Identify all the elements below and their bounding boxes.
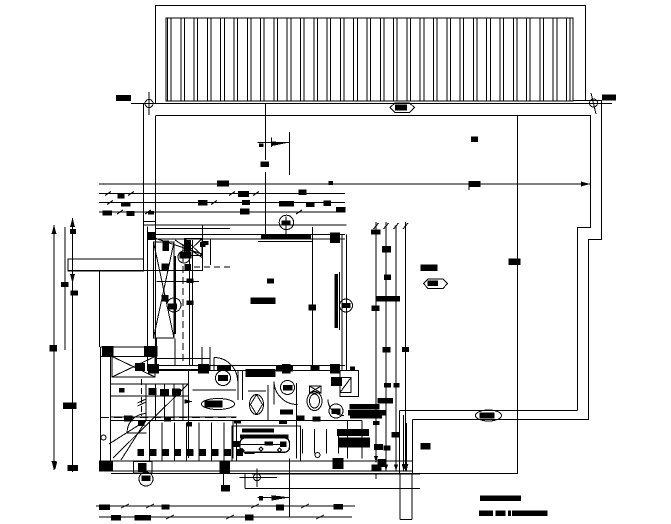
left dim tick blob top — [70, 229, 76, 234]
living west wall outer — [147, 227, 149, 372]
dim blobs line3 b — [242, 200, 250, 205]
left dim v1 bottom arrow — [52, 461, 57, 470]
kitchen counter outline — [340, 371, 359, 397]
toilet bowl oval — [307, 392, 322, 411]
top wall window band — [261, 235, 311, 239]
section marker top: flag triangle — [272, 142, 290, 147]
roof label blob right — [602, 95, 616, 101]
bath dim blob right b — [350, 367, 355, 372]
right wall window band — [335, 274, 339, 328]
stairs dashed line — [101, 417, 236, 419]
dim blobs line3 a — [198, 200, 208, 206]
bath door circle blob — [283, 385, 293, 391]
west wall inner lower block — [110, 357, 112, 463]
top dim line 3 — [99, 202, 345, 204]
X panel tick blob 2 — [162, 295, 169, 302]
lower-right label ellipse — [476, 410, 502, 421]
lower-right rect right edge — [517, 420, 519, 474]
roof datum tick left — [148, 92, 150, 115]
vdim bottom arrows — [374, 456, 378, 463]
stair corridor line down — [188, 371, 190, 458]
big text kitchen 1b — [350, 404, 380, 410]
store X diagonal 1 — [112, 357, 155, 378]
section marker top: tick — [271, 138, 273, 148]
upper flight tread 3 — [164, 384, 166, 421]
upper-left floor line — [68, 270, 203, 272]
bottom dim2 blob c — [245, 515, 254, 521]
left dim arrow mid — [70, 274, 75, 283]
toilet tank rect — [310, 386, 322, 393]
closet dark bar 1 — [163, 241, 170, 252]
panel circle2 blob — [168, 304, 177, 310]
top wall window sill lines — [258, 241, 313, 243]
dim blobs line2 a — [118, 194, 125, 199]
big text kitchen 1a — [378, 398, 394, 404]
wall tick top right — [471, 137, 478, 143]
roof eave upper line right — [573, 100, 602, 102]
grid centreline x=265 upper — [265, 104, 267, 160]
bathtub heavy bar lower — [240, 434, 289, 438]
small drain circle left — [101, 435, 106, 440]
left dim blob c — [50, 345, 58, 352]
door label circle blob — [218, 375, 228, 381]
column SW lower block — [99, 461, 113, 472]
bath row mid wall y420 — [237, 420, 363, 422]
stair right dim arrow — [185, 399, 194, 404]
vdim blob a — [371, 230, 381, 235]
closet dash lower — [194, 266, 230, 268]
upper-left room inner wall — [210, 239, 212, 265]
door label circle bottom living — [216, 371, 231, 386]
vdim x386 — [385, 222, 387, 471]
panel label circle 1 — [178, 251, 190, 263]
upper-left room top wall line1 — [144, 224, 347, 226]
closet X-brace rect — [185, 239, 203, 256]
bottom column stem — [222, 468, 224, 486]
door arc bottom living — [214, 358, 238, 382]
toilet bowl inner ellipse — [310, 394, 320, 408]
interior grid line x=312 — [312, 227, 314, 365]
top dim line 2 — [99, 193, 345, 195]
bottom-right inner ledge — [400, 410, 578, 412]
store bottom blob — [135, 363, 145, 371]
bottom crosshair circle — [254, 474, 261, 481]
dashed centre corridor — [182, 244, 184, 362]
label circle right wall — [340, 299, 353, 312]
right wall window inner lines — [339, 272, 341, 330]
dim line1 tick — [329, 181, 334, 185]
kitchen right wall — [361, 421, 363, 459]
column SW living — [148, 364, 159, 374]
bath label blob under arc — [280, 410, 293, 415]
column S mid — [198, 364, 209, 374]
living room centre text — [251, 298, 276, 305]
dim1 right arrow — [581, 182, 590, 187]
dim blobs line4 a — [103, 211, 113, 216]
text above bath row — [246, 369, 276, 377]
bathtub top blob b — [279, 420, 287, 424]
label circle top wall — [279, 215, 293, 229]
top hexagon blob — [395, 105, 407, 111]
door jamb block — [204, 366, 210, 371]
roof label blob left — [116, 95, 131, 101]
stair door leaf — [127, 432, 147, 434]
pedestal basin diamond — [251, 395, 263, 415]
bathtub corner diamond 2 — [259, 447, 263, 451]
column SE living — [330, 364, 340, 374]
chimney stack right — [411, 474, 413, 520]
bathtub corner diamond 3 — [278, 448, 282, 452]
landing wall upper — [155, 358, 210, 360]
extension tick near wall line2 — [148, 211, 154, 215]
chimney stack cap — [400, 519, 412, 521]
wc toilet blob — [205, 401, 223, 408]
roof eave bottom line — [131, 103, 612, 105]
upper flight tread 2 — [155, 384, 157, 421]
vdim long bar — [376, 296, 400, 302]
roof hatch panel — [166, 18, 573, 101]
column N mid lower block — [144, 346, 158, 357]
chimney duct left line — [399, 411, 401, 474]
kitchen sink rect — [340, 378, 351, 393]
upper flight tread 4 — [173, 384, 175, 421]
vdim small blob pair b — [394, 383, 400, 388]
bottom-right outer ledge — [413, 419, 590, 421]
stair break slash b — [138, 402, 147, 406]
bottom dim1 blob d — [334, 504, 344, 510]
stair door arc — [127, 414, 147, 434]
tread text blob 1 — [149, 388, 157, 395]
left dim v1 — [53, 225, 55, 470]
vdim blob i — [384, 446, 391, 451]
roof hatch lines — [167, 18, 169, 101]
bathtub bottom bar — [244, 452, 254, 455]
pedestal basin oval — [250, 395, 264, 415]
blob in right circle — [342, 303, 351, 308]
bath small blob a — [297, 416, 305, 421]
kitchen door arc — [328, 400, 344, 416]
stair bottom box — [134, 462, 153, 474]
living top wall outer — [148, 234, 346, 236]
mid-right hexagon blob — [428, 281, 439, 287]
panel top blob a — [184, 241, 190, 247]
bathtub room left wall — [232, 421, 234, 459]
upper flight mid line — [111, 395, 189, 397]
west wall outer lower block — [100, 347, 102, 471]
X panel outer rect — [154, 242, 175, 338]
upper-left block top wall stub — [144, 221, 157, 223]
closet big blob — [180, 252, 192, 259]
big text kitchen 3 — [339, 438, 370, 448]
small blob right of bottom wall — [378, 459, 386, 467]
upper flight left blob — [119, 388, 125, 393]
section marker top: right extension line — [289, 132, 291, 175]
kitchen counter bottom wall — [296, 421, 298, 459]
title line 1 — [480, 496, 521, 502]
bathtub corner diamond 1 — [240, 448, 244, 452]
title line 2 seg a — [479, 511, 493, 517]
mid-right label bar — [421, 265, 438, 272]
kitchen door circle — [329, 404, 343, 418]
corridor stub wall b — [209, 347, 211, 371]
top wall lower block inner — [101, 356, 158, 358]
living bottom wall inner — [148, 365, 346, 367]
small circle drain — [315, 453, 320, 458]
section marker top: small square — [259, 144, 264, 148]
wc room right wall — [267, 385, 269, 421]
column NE living — [330, 233, 340, 244]
vdim blob f — [383, 347, 391, 353]
left dim blob e — [68, 465, 79, 471]
left dim v1 top arrow — [52, 225, 57, 234]
stair diagonal long — [113, 384, 188, 458]
closet dark bar 2 — [185, 240, 192, 252]
wc room west wall b — [242, 371, 244, 400]
left dim v2 arrows — [70, 218, 75, 227]
X panel bottom extension — [157, 339, 176, 366]
chimney dim ext line a — [403, 415, 405, 471]
closet blob lower2 — [185, 264, 192, 270]
stair blob b — [138, 421, 145, 426]
bathtub room rect — [232, 426, 301, 461]
top dim line 4 — [99, 211, 345, 213]
inner right outline — [578, 116, 591, 411]
bottom wall line C — [111, 473, 413, 475]
centreline text blob — [261, 162, 270, 168]
lower-right label blob — [480, 413, 495, 419]
bathtub dark square — [280, 442, 287, 448]
right-bottom vdim blob — [421, 443, 431, 450]
living top wall inner — [148, 238, 346, 240]
dim blobs line1 b — [469, 181, 481, 187]
big text kitchen 1c — [348, 410, 386, 416]
stair blob door area — [124, 416, 133, 422]
stair blob c — [164, 417, 171, 422]
stair bottom circle blob — [142, 476, 151, 482]
stair centre dim ext dashed — [141, 379, 143, 416]
stair bottom box blob — [138, 463, 147, 472]
right dim ext line — [468, 184, 470, 191]
bottom dim line 2 — [99, 516, 352, 518]
kitchen sink diagonal — [340, 378, 351, 393]
column at living NW corner — [148, 232, 157, 240]
blob in top circle — [282, 221, 291, 226]
closet blob lower1 — [163, 264, 170, 270]
living bottom wall outer — [148, 370, 346, 372]
wc room west wall — [237, 371, 239, 400]
bottom section flag line — [257, 496, 289, 498]
bath door leaf — [273, 382, 275, 405]
column bottom right — [333, 458, 344, 469]
stair mid rail line — [111, 416, 237, 418]
projecting bar (balcony slab) — [68, 259, 144, 271]
section marker top: line — [258, 142, 290, 144]
X panel diagonal 2 — [154, 242, 175, 338]
stair blob d — [187, 422, 192, 427]
grid line through plan x=517 — [517, 116, 519, 420]
living right wall outer — [346, 235, 348, 372]
bath door arc — [274, 382, 298, 405]
bathtub room left wall b — [236, 421, 238, 459]
vdim x405 — [405, 222, 407, 471]
kitchen counter lines — [302, 429, 304, 454]
door head bar — [217, 366, 231, 371]
vdim blob k — [402, 342, 404, 344]
tread text blob 4 — [175, 389, 181, 395]
lower flight treads — [149, 423, 151, 462]
title line 2 seg c — [508, 511, 511, 517]
bottom dim1 blob b — [162, 505, 170, 510]
landing top line — [111, 383, 189, 385]
stair break slash a — [138, 399, 147, 403]
wc niche line — [193, 389, 237, 391]
door leaf bottom living — [213, 358, 215, 372]
vdim blob d — [384, 275, 391, 281]
bathtub waterline — [241, 443, 282, 445]
vdim blob h — [392, 432, 400, 438]
column NW lower block — [102, 346, 114, 356]
bottom dim1 blob a — [99, 504, 110, 510]
bath dim blob right a — [311, 366, 320, 371]
top wall lower block outer — [101, 346, 158, 348]
big text kitchen 2 — [337, 429, 369, 436]
upper-left room top wall line2 — [156, 228, 230, 230]
blob left corridor b — [187, 301, 194, 306]
bath text cluster extra — [276, 366, 293, 372]
lower flight tread squares — [138, 449, 145, 456]
bottom dim2 blob b — [135, 515, 152, 521]
dim blobs line2 b — [238, 191, 249, 197]
vdim arrows top — [374, 223, 379, 229]
upper-left room right wall — [202, 225, 204, 271]
vdim small blob pair a — [384, 383, 391, 388]
dim blobs line3 e — [324, 201, 332, 207]
outer right outline — [589, 100, 602, 420]
bottom-left dim arrow1 — [53, 462, 57, 470]
long diagonal from NW column — [156, 239, 202, 255]
left dim blob b — [71, 291, 79, 296]
left outer wall mid — [99, 271, 101, 347]
stair upper flight right edge — [188, 384, 190, 421]
vdim x376 lower tick — [375, 475, 377, 479]
bathtub blob — [265, 442, 274, 446]
column bottom mid — [220, 462, 231, 474]
panel top blob b — [200, 242, 206, 247]
lower-right rectangle — [413, 420, 519, 474]
bottom wall line A — [99, 460, 412, 462]
dim blobs line3 c — [279, 201, 294, 207]
mid-right hexagon — [424, 279, 448, 289]
grid centreline x=265 lower — [265, 172, 267, 236]
vdim blob g — [402, 347, 409, 352]
dim blobs line4 d — [336, 207, 346, 213]
bottom column blob — [221, 485, 230, 491]
closet X diag2 — [185, 239, 203, 256]
living small blob above text — [267, 279, 274, 284]
vdim blob l — [374, 444, 383, 450]
title line 2 seg b — [496, 511, 506, 517]
tread text blob 2 — [160, 389, 169, 396]
toilet tank X — [310, 386, 322, 393]
store X diagonal 2 — [112, 357, 155, 378]
blob left corridor a — [187, 279, 194, 284]
kitchen door circle blob — [332, 409, 341, 415]
upper flight left edge — [110, 384, 112, 421]
X panel diagonal 1 — [154, 242, 175, 338]
dim arrows small ticks — [105, 192, 111, 196]
living right wall inner — [341, 235, 343, 372]
stair diagonal arrow 2 — [121, 421, 146, 461]
bottom crosshair h line — [240, 476, 278, 478]
big text kitchen 1e — [373, 421, 380, 425]
chimney stack left — [399, 474, 401, 520]
bottom dim2 blob a — [111, 515, 121, 521]
bathtub left column blob — [233, 441, 240, 447]
title line 2 seg d — [512, 511, 548, 517]
bath small blob b — [313, 417, 321, 422]
bottom dim line 1 — [96, 505, 355, 507]
bathtub body — [240, 438, 290, 452]
label circle top wall stem — [285, 217, 287, 235]
chimney dim ext line b — [405, 423, 407, 471]
roof datum slash right — [591, 93, 596, 114]
stair bottom circle — [139, 472, 153, 486]
tread text blob 3 — [172, 389, 180, 396]
vdim x396 — [395, 225, 397, 471]
dim blobs line2 c — [299, 190, 307, 196]
basin back wall line — [248, 390, 266, 392]
bottom grid vertical x289 — [289, 459, 291, 518]
vdim blob e — [372, 306, 380, 312]
bottom section flag tick — [259, 496, 263, 501]
bottom detail line 2 — [245, 488, 420, 490]
column S mid2 — [282, 364, 291, 374]
left dim v3 x65 — [64, 227, 66, 350]
dim blobs line4 c — [240, 209, 250, 215]
corridor stub wall a — [201, 347, 203, 371]
bottom dim arrows — [121, 504, 129, 508]
X-braced box (store) — [112, 357, 155, 378]
X panel mid horizontal — [157, 281, 200, 283]
corridor wall east of panel — [189, 240, 191, 366]
dim blobs line3 d — [306, 202, 315, 207]
bath door circle — [281, 381, 295, 395]
upper flight bottom / mid landing line — [111, 420, 237, 422]
corridor wall east of panel 2 — [192, 240, 194, 366]
chimney dim arrows — [402, 464, 406, 471]
panel top door diagonal — [175, 240, 203, 258]
landing wall upper2 — [155, 369, 210, 371]
top hexagon label — [390, 103, 415, 113]
stair diagonal arrow 1 — [109, 421, 146, 445]
bottom wall line B — [99, 470, 412, 472]
bath room right wall upper — [296, 383, 298, 421]
X panel tick blob 1 — [162, 264, 169, 271]
bottom section flag triangle — [272, 495, 290, 500]
dim line3 left blob b — [121, 202, 131, 207]
closet X diag1 — [185, 239, 203, 256]
wc horizontal toilet ellipse — [202, 399, 235, 410]
blob on x312 — [309, 305, 317, 311]
left outer wall upper — [143, 104, 145, 259]
top dim line 1 — [99, 183, 590, 185]
vdim blob c — [382, 246, 391, 253]
panel label circle 2 — [167, 298, 181, 312]
bottom dim1 blob c — [276, 505, 284, 511]
dim blobs line4 b — [127, 211, 135, 216]
closet blob right — [203, 241, 209, 245]
bathtub heavy bar upper — [242, 428, 274, 432]
